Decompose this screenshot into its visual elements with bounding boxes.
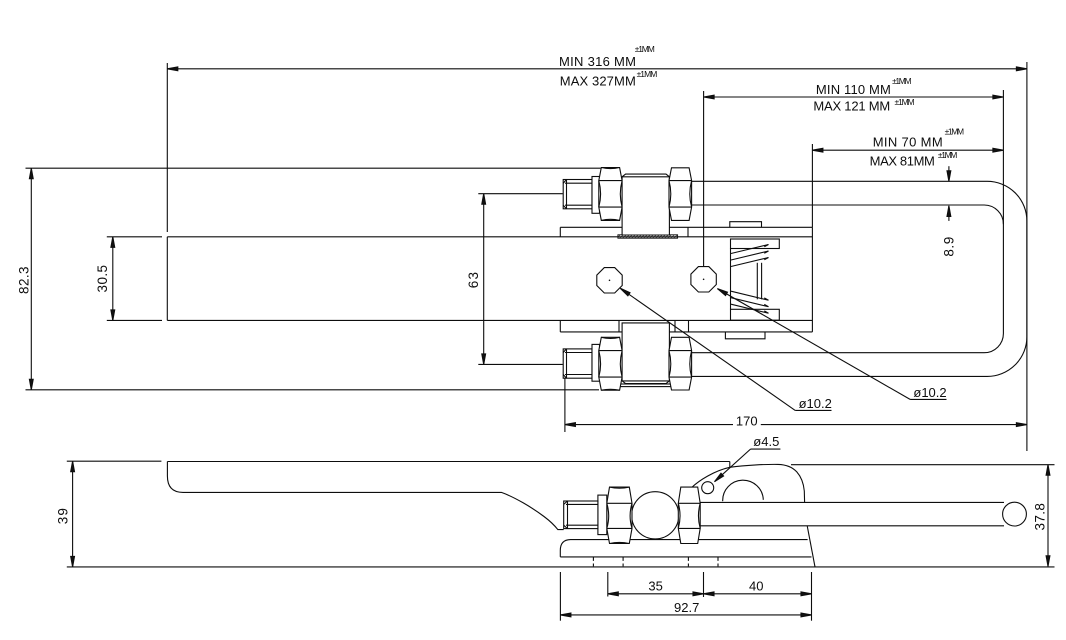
extension lines 63 [478,193,563,195]
extension line MIN70 left (above frame corner) [811,144,813,227]
latch head arch cutout [723,480,764,501]
extension line MIN316 left [166,63,168,232]
svg-text:82.3: 82.3 [17,266,32,294]
lever bar (plan) [167,236,812,238]
threaded stud top (plan) [563,168,691,236]
extension line MIN316/170 right [1026,62,1028,451]
svg-text:±1MM: ±1MM [945,126,965,136]
trunnion block top (plan) [622,174,669,235]
svg-text:63: 63 [466,271,481,288]
svg-text:92.7: 92.7 [674,600,699,615]
dimension 8.9 arrows [948,166,950,181]
extension line 39 top [67,460,162,462]
svg-text:30.5: 30.5 [95,265,110,293]
label hole 4.5 leader [715,449,751,482]
hole 4.5 (side) [702,482,714,494]
base plate (side) [571,539,808,541]
hex nut N5 (side) [564,487,701,543]
svg-text:MIN 70 MM: MIN 70 MM [873,135,943,150]
svg-text:±1MM: ±1MM [892,76,912,86]
dimension MIN 70 / MAX 81 [812,149,1003,151]
svg-text:±1MM: ±1MM [637,69,658,79]
lever handle (side) [167,461,729,463]
hex nut N4 (plan) [669,337,692,390]
svg-text:ø4.5: ø4.5 [753,434,779,449]
pivot hole A [597,268,622,293]
svg-text:ø10.2: ø10.2 [913,385,946,400]
hex nut N1 (plan) [599,168,622,221]
dimension 40 [704,593,812,595]
U-bolt bend end (side) [1003,502,1027,526]
svg-text:MAX 121 MM: MAX 121 MM [813,98,890,113]
spring coils bottom [731,304,769,313]
dimension 63 [483,194,485,365]
spring catch retainer bottom [731,309,780,320]
svg-text:8.9: 8.9 [942,236,957,257]
flange (side) [598,495,607,534]
dimension MIN 110 / MAX 121 [704,96,1004,98]
extension line MIN110/MIN70 right (loop inner edge upper) [1002,90,1004,224]
U-bolt inner outline [692,205,1004,353]
dimension 37.8 [1047,465,1049,567]
frame top tab [730,222,762,228]
extension lines 30.5 [107,236,162,238]
svg-text:ø10.2: ø10.2 [799,396,832,411]
spring coils top [731,245,769,254]
threaded stud (side) [564,501,598,529]
dimension 35 [608,593,704,595]
svg-text:170: 170 [736,413,758,428]
spring center rod [756,263,758,300]
dimension 39 [72,461,74,567]
svg-text:39: 39 [56,507,71,524]
trunnion ball (side) [632,492,679,539]
hex nut N2 (plan) [669,168,692,221]
frame bottom tab [725,332,765,339]
extension line pivot (MIN110 left) [703,91,705,266]
latch head lower edge [807,526,815,567]
spring catch retainer top [731,239,780,249]
svg-text:37.8: 37.8 [1032,503,1047,531]
svg-text:±1MM: ±1MM [635,44,655,54]
latch head (side) [729,462,731,468]
trunnion base strip bottom [620,384,672,387]
dimension 92.7 [560,614,811,616]
extension line 82.3 top [26,167,601,169]
dimension 30.5 [112,237,114,321]
latch frame (plan) [560,226,812,228]
leader hole A [620,288,795,410]
flange top (plan) [592,177,600,214]
trunnion base strip top (hatched) [618,235,678,238]
hex nut N6 (side) [678,487,700,543]
U-bolt rod (side) [700,502,1005,525]
svg-text:MAX 81MM: MAX 81MM [870,154,935,169]
spring left edge [730,249,732,310]
frame bent-tab edges [687,227,689,237]
extension lines bottom dims [559,572,561,621]
threaded stud bottom (plan) [563,323,691,390]
flange bottom (plan) [592,344,600,381]
svg-text:MIN 316 MM: MIN 316 MM [559,54,636,69]
extension line 170 left [564,379,566,433]
hidden hole edges (dashed) [593,557,718,566]
svg-text:35: 35 [648,579,662,594]
svg-text:±1MM: ±1MM [938,150,958,160]
dimension MIN 316 / MAX 327 [167,68,1027,70]
svg-text:40: 40 [749,579,763,594]
extension line 82.3 bottom [26,389,600,391]
trunnion block bottom (plan) [622,323,669,384]
dimension 170 [565,424,733,426]
svg-text:MIN 110 MM: MIN 110 MM [816,82,891,97]
ground / base extension line [67,566,1055,568]
svg-text:±1MM: ±1MM [895,97,915,107]
leader hole B [717,289,910,400]
pivot hole B [691,267,716,292]
svg-text:MAX 327MM: MAX 327MM [560,74,636,89]
hex nut N3 (plan) [599,337,622,390]
U-bolt outer outline [692,181,1027,376]
dimension 82.3 [30,168,32,390]
extension line 37.8 top [791,464,1055,466]
